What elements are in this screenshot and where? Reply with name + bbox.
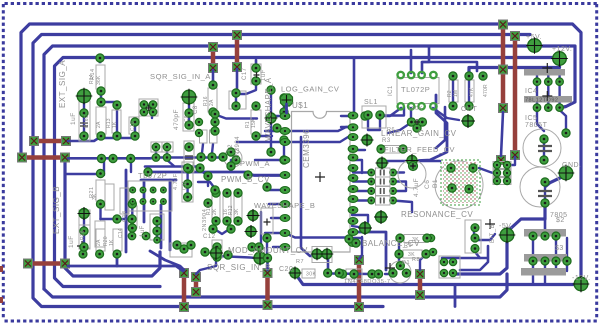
svg-text:BIT_B: BIT_B [490,224,496,243]
svg-text:R9: R9 [404,243,412,249]
svg-text:PWM_A: PWM_A [240,159,270,168]
svg-text:1K: 1K [112,121,118,128]
svg-text:1M: 1M [453,90,459,97]
svg-text:GND.: GND. [562,162,582,169]
svg-text:-12V.: -12V. [572,275,591,282]
svg-text:3K: 3K [234,208,240,215]
svg-text:B1: B1 [432,179,439,188]
svg-text:FILTER_FEED_CV: FILTER_FEED_CV [384,145,455,154]
svg-text:C10: C10 [130,121,136,131]
svg-text:1uF: 1uF [70,112,77,125]
svg-text:4.7uF: 4.7uF [173,173,179,190]
svg-text:3K: 3K [92,193,98,200]
svg-text:C17: C17 [242,67,248,80]
svg-text:OUT: OUT [461,106,478,113]
svg-text:7805T: 7805T [525,122,548,129]
svg-text:R26: R26 [80,230,86,240]
svg-text:1uF: 1uF [140,225,146,237]
svg-text:2A: 2A [96,239,102,246]
svg-text:R10: R10 [206,205,212,215]
svg-text:3K: 3K [408,252,415,258]
svg-text:R7: R7 [296,259,304,265]
svg-text:C11: C11 [182,181,188,190]
svg-text:+12V.: +12V. [552,46,572,53]
svg-text:1uF: 1uF [261,69,267,81]
svg-text:C20: C20 [279,266,293,273]
svg-text:470pF: 470pF [173,109,180,130]
svg-text:SQR_SIG_IN_B: SQR_SIG_IN_B [207,263,271,272]
svg-text:-5V.: -5V. [499,223,513,230]
svg-text:2K: 2K [212,208,218,215]
svg-text:4.7uF: 4.7uF [413,178,420,197]
svg-text:TL072P: TL072P [401,85,430,94]
svg-text:78L12TO92: 78L12TO92 [525,98,558,104]
svg-text:1N4148DO35-7: 1N4148DO35-7 [344,279,391,285]
svg-text:C8: C8 [193,105,199,114]
svg-text:U$1: U$1 [292,101,308,110]
svg-text:IC5: IC5 [525,115,537,122]
svg-text:EXT_SIG_B: EXT_SIG_B [52,186,61,234]
svg-text:IC4: IC4 [525,88,537,95]
svg-text:R13: R13 [106,118,112,128]
svg-text:C14: C14 [118,228,124,238]
svg-text:R16C: R16C [84,114,90,128]
svg-text:WAVESHAPE_A: WAVESHAPE_A [264,77,273,141]
svg-text:C14: C14 [122,210,128,222]
svg-text:LOG_GAIN_CV: LOG_GAIN_CV [281,85,339,94]
svg-text:CEM3396: CEM3396 [302,129,311,168]
svg-text:R3: R3 [382,138,391,144]
svg-text:R20: R20 [103,236,109,246]
svg-text:470R: 470R [483,84,489,97]
svg-text:1K: 1K [109,239,115,246]
svg-text:MOD_AMOUNT_CV: MOD_AMOUNT_CV [228,246,308,255]
svg-text:T2: T2 [228,144,234,152]
svg-text:36K: 36K [96,75,102,85]
svg-text:C12: C12 [203,234,216,240]
svg-text:RESONANCE_CV: RESONANCE_CV [401,210,473,219]
svg-text:+5V.: +5V. [526,34,542,41]
svg-text:$3: $3 [555,245,564,252]
svg-text:1uF: 1uF [68,235,75,248]
svg-text:R1: R1 [245,121,251,128]
svg-text:SQR_SIG_IN_A: SQR_SIG_IN_A [150,72,211,81]
svg-text:2A: 2A [96,121,102,128]
svg-text:47K: 47K [469,87,475,97]
svg-text:C8: C8 [184,115,190,122]
svg-text:R14: R14 [89,74,95,84]
svg-text:100K: 100K [408,106,423,112]
svg-text:C6: C6 [424,180,431,189]
svg-text:D1: D1 [402,260,410,266]
svg-text:EXT_SIG_A: EXT_SIG_A [58,60,67,108]
svg-text:R2: R2 [447,90,453,97]
svg-text:$2: $2 [556,217,565,224]
svg-text:2A: 2A [209,99,215,106]
svg-text:15K: 15K [251,118,257,128]
svg-text:SL1: SL1 [364,99,378,106]
svg-text:TL072P: TL072P [138,171,167,180]
svg-text:IC1: IC1 [388,85,394,96]
svg-text:PWM_B_CV: PWM_B_CV [221,175,270,184]
svg-text:2N3904: 2N3904 [235,136,241,160]
svg-text:WAVESHAPE_B: WAVESHAPE_B [254,201,315,210]
svg-text:3K: 3K [412,237,419,243]
svg-text:R16: R16 [203,96,209,106]
svg-text:R12: R12 [228,205,234,215]
svg-text:30K: 30K [306,272,317,278]
svg-text:R6: R6 [387,127,395,133]
